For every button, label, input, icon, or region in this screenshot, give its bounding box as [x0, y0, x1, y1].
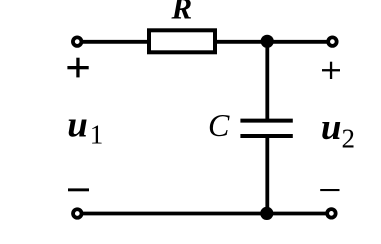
- svg-text:2: 2: [341, 124, 355, 154]
- svg-text:1: 1: [90, 119, 104, 149]
- svg-text:u: u: [67, 104, 88, 145]
- svg-text:C: C: [208, 107, 230, 143]
- svg-text:R: R: [170, 0, 192, 26]
- svg-text:u: u: [321, 107, 342, 148]
